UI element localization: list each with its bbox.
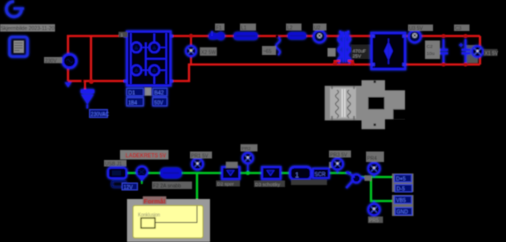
label of squiggle <box>262 46 276 55</box>
label below D2 <box>216 181 240 188</box>
svg-text:C3: C3 <box>455 26 462 32</box>
net label VB <box>395 196 412 204</box>
svg-text:D1: D1 <box>128 91 135 97</box>
node junction <box>276 35 279 38</box>
svg-text:Skjermbilde 2023-11-20: Skjermbilde 2023-11-20 <box>1 26 55 32</box>
net label 12V <box>122 183 138 191</box>
ground arrow symbol <box>81 89 95 109</box>
wire: vertical tie between rails <box>90 36 92 82</box>
fuse F1 on rail <box>209 31 226 40</box>
svg-text:U3 5V: U3 5V <box>409 26 424 32</box>
svg-text:50V: 50V <box>154 100 164 106</box>
svg-text:C2: C2 <box>427 44 433 50</box>
label above L2 <box>286 24 302 32</box>
connector J1 <box>108 168 127 187</box>
value label 1B4 <box>127 98 144 107</box>
svg-text:230VAC: 230VAC <box>91 112 110 118</box>
svg-text:PR4: PR4 <box>367 156 377 162</box>
label for probe <box>200 47 217 56</box>
label above P5 <box>366 152 384 163</box>
meter circle on rail <box>314 31 326 43</box>
fuse F2 <box>160 168 182 179</box>
svg-text:PR5: PR5 <box>369 218 379 224</box>
wire: green right section <box>360 176 394 178</box>
regulator module U1 <box>372 33 406 69</box>
ghost transformer preview <box>325 86 362 121</box>
probe lamp X2 between rails <box>186 46 196 56</box>
faint text under U4 U5 <box>291 180 327 186</box>
label above connector J1 <box>104 160 127 168</box>
transistor Q1 <box>346 172 364 188</box>
label below D3 <box>254 181 285 189</box>
title highlight bar <box>120 150 169 160</box>
dangling probe squiggle <box>276 37 280 55</box>
node junction <box>464 63 468 67</box>
svg-text:D-5: D-5 <box>397 187 405 193</box>
bridge pins <box>124 34 174 82</box>
label above F1 <box>215 24 225 32</box>
value label V1 <box>44 57 62 64</box>
svg-text:230V: 230V <box>45 58 57 64</box>
regulator pins <box>372 34 406 66</box>
pin number label <box>119 32 128 38</box>
svg-text:PR3 5V: PR3 5V <box>330 153 348 159</box>
svg-text:SCR: SCR <box>315 172 326 178</box>
inductor L2 on rail <box>288 32 307 40</box>
inductor L1 on rail <box>234 32 259 40</box>
svg-text:12V: 12V <box>124 185 134 191</box>
svg-text:L1: L1 <box>241 25 247 31</box>
net label 230V <box>90 110 110 119</box>
label above C3 <box>454 25 470 33</box>
node junction <box>442 63 446 67</box>
value label C2 <box>425 41 440 60</box>
wire: source top to bridge top-left <box>68 36 127 54</box>
meter circle after regulator <box>409 31 421 43</box>
wire: right edge vertical <box>479 36 481 65</box>
label above meter <box>313 24 327 32</box>
label above D2 <box>226 162 238 168</box>
node junction <box>442 34 446 38</box>
svg-text:X2 5W: X2 5W <box>201 50 216 56</box>
net label DM <box>395 185 412 193</box>
svg-text:D2 sper: D2 sper <box>217 182 234 188</box>
svg-text:D3 schottky: D3 schottky <box>255 182 281 188</box>
AC source V1 <box>63 54 77 87</box>
net label DP <box>395 175 412 183</box>
wire: top rail from bridge to right edge <box>170 35 480 37</box>
probe P5 <box>368 163 380 177</box>
wire: source bottom pin <box>67 68 69 81</box>
value label 50V <box>153 98 167 107</box>
node junction <box>89 79 94 84</box>
wire: main green rail <box>124 172 351 174</box>
wire: bottom-left horizontal to bridge <box>68 80 127 82</box>
comment note yellow box <box>133 206 203 239</box>
svg-text:25V: 25V <box>353 54 362 60</box>
probe P2 <box>192 158 203 169</box>
svg-text:~65: ~65 <box>263 49 272 55</box>
desktop icon: clock app <box>6 1 24 16</box>
gray label patch near C3 <box>466 45 478 63</box>
probe P3 <box>243 153 254 173</box>
desktop icon: document file <box>10 37 28 57</box>
capacitor C2 <box>439 39 448 64</box>
labels above P3 <box>241 144 258 152</box>
wire: probe X2 stubs <box>190 37 192 65</box>
node junction <box>464 34 468 38</box>
bridge rectifier D1 <box>127 32 171 86</box>
node junction green <box>246 171 250 175</box>
gray backing for net labels pair 2 <box>392 195 414 216</box>
logic block U5 <box>313 169 329 179</box>
gray block between labels <box>145 88 152 96</box>
svg-text:D+5: D+5 <box>396 177 406 183</box>
label below F2 <box>152 182 192 190</box>
refdes label B42 <box>153 88 167 96</box>
net label GN <box>395 208 412 216</box>
wire: bridge lower output and bottom rail <box>170 65 480 82</box>
ghost component blocks <box>362 80 406 129</box>
label above P4 <box>329 151 351 159</box>
svg-text:L2: L2 <box>287 25 293 31</box>
svg-text:F1: F1 <box>216 25 222 31</box>
label above meter <box>408 25 433 33</box>
svg-text:1: 1 <box>295 172 299 179</box>
svg-text:LADEKRETS 5V: LADEKRETS 5V <box>126 153 167 160</box>
wire: transformer bottom stubs <box>335 61 354 65</box>
red caption Formal <box>143 196 167 204</box>
node junction <box>189 34 193 38</box>
label of lamp <box>484 49 499 57</box>
label above L1 <box>240 24 256 32</box>
label below P6 <box>368 217 383 225</box>
pin label block <box>365 175 372 181</box>
regulator block U4 <box>290 167 311 180</box>
svg-text:X1 5V: X1 5V <box>485 51 499 57</box>
node junction <box>81 80 84 83</box>
svg-text:PR2: PR2 <box>242 146 252 152</box>
svg-text:B42: B42 <box>154 91 164 97</box>
svg-text:U2: U2 <box>314 25 321 31</box>
svg-text:F2 2A snabb: F2 2A snabb <box>153 184 181 190</box>
svg-text:VB5: VB5 <box>396 198 406 204</box>
svg-text:1: 1 <box>121 32 124 37</box>
gray backing for net labels pair 1 <box>392 174 414 193</box>
value label of T1 <box>351 45 371 60</box>
probe P6 <box>368 201 380 215</box>
svg-text:PR1 5V: PR1 5V <box>191 154 209 160</box>
svg-text:GND: GND <box>397 210 409 216</box>
svg-text:1B4: 1B4 <box>128 100 137 106</box>
source B1 circle <box>137 166 148 181</box>
desktop icon filename label <box>0 24 55 32</box>
svg-text:USB J1: USB J1 <box>105 162 122 168</box>
svg-text:10u: 10u <box>427 51 435 57</box>
diode block D3 <box>262 167 281 179</box>
wire: vertical drop to label pair 2 <box>371 177 394 201</box>
label above P2 <box>190 152 212 160</box>
small gray block right of U5 <box>329 162 335 168</box>
refdes label D1 <box>127 88 144 96</box>
lamp X1 at output <box>472 46 483 57</box>
node junction <box>333 61 337 65</box>
gray label block left of T1 <box>328 48 336 57</box>
capacitor C3 <box>459 39 471 64</box>
node junction <box>350 61 354 65</box>
comment frame gray <box>127 199 210 242</box>
diode block D2 <box>222 167 240 179</box>
transformer T1 <box>338 31 350 63</box>
svg-text:Formål: Formål <box>144 198 166 206</box>
probe P4 <box>332 158 343 173</box>
wire: drop to comment box <box>196 173 198 206</box>
